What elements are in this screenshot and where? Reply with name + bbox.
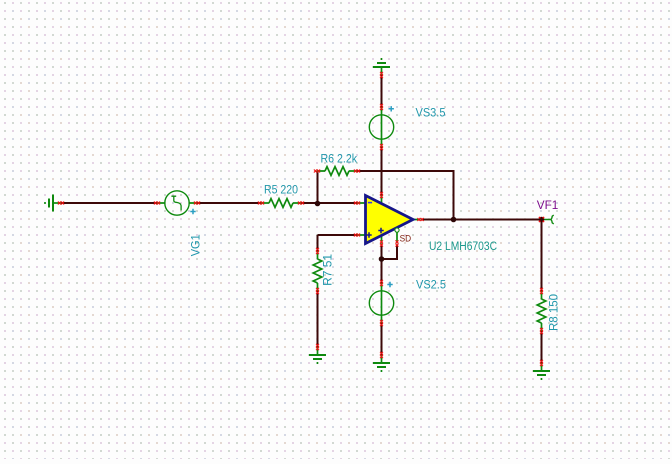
- svg-text:VG1: VG1: [188, 234, 202, 256]
- svg-text:R6 2.2k: R6 2.2k: [321, 152, 358, 166]
- svg-text:VS3.5: VS3.5: [416, 105, 446, 119]
- svg-text:R5 220: R5 220: [264, 183, 298, 197]
- svg-text:R7 51: R7 51: [321, 254, 335, 286]
- svg-text:VS2.5: VS2.5: [416, 278, 446, 292]
- svg-text:SD: SD: [400, 234, 412, 244]
- svg-text:R8 150: R8 150: [547, 294, 561, 331]
- svg-text:VF1: VF1: [537, 198, 559, 212]
- svg-text:U2 LMH6703C: U2 LMH6703C: [429, 239, 497, 253]
